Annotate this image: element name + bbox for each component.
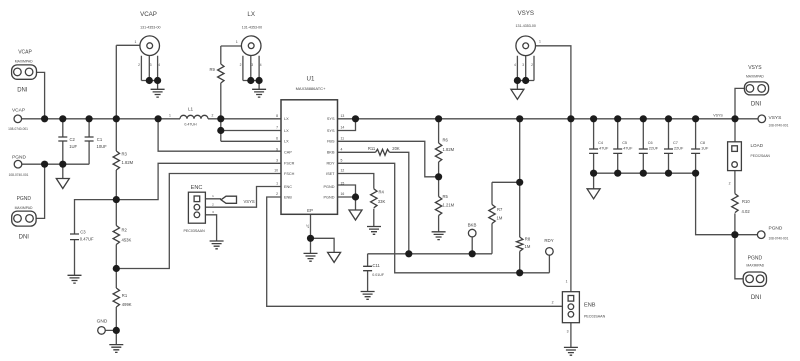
svg-text:17: 17 [306, 224, 310, 228]
svg-text:MAXIMPAD: MAXIMPAD [15, 206, 33, 210]
svg-text:R6: R6 [443, 138, 449, 143]
svg-text:1UF: 1UF [701, 147, 709, 151]
svg-text:EP: EP [307, 208, 313, 213]
svg-text:DNI: DNI [17, 88, 28, 94]
svg-text:R5: R5 [443, 194, 449, 199]
svg-text:20K: 20K [392, 146, 400, 151]
svg-text:PEC02SAAN: PEC02SAAN [751, 154, 771, 158]
svg-text:MAXIMPAD: MAXIMPAD [15, 59, 33, 63]
svg-text:MAXIMPAD: MAXIMPAD [746, 264, 764, 268]
svg-text:LX: LX [284, 117, 289, 121]
svg-text:13: 13 [341, 114, 345, 118]
svg-text:16: 16 [341, 192, 345, 196]
svg-text:DNI: DNI [751, 295, 762, 301]
svg-text:PGND: PGND [17, 196, 32, 202]
svg-text:BKB: BKB [468, 222, 477, 227]
svg-text:1: 1 [135, 40, 137, 44]
svg-text:108-0740-001: 108-0740-001 [8, 127, 28, 131]
svg-text:15: 15 [341, 182, 345, 186]
svg-text:C5: C5 [622, 141, 627, 145]
svg-text:4: 4 [158, 63, 160, 67]
svg-text:2: 2 [729, 182, 731, 186]
svg-text:FBS: FBS [327, 140, 335, 144]
svg-text:ENB: ENB [584, 303, 596, 309]
svg-text:VSYS: VSYS [769, 115, 782, 121]
svg-text:8: 8 [276, 114, 278, 118]
svg-text:ISET: ISET [326, 172, 335, 176]
svg-text:RDY: RDY [544, 238, 553, 243]
svg-text:1.82M: 1.82M [443, 147, 455, 152]
svg-text:PGND: PGND [12, 155, 26, 161]
svg-text:1M: 1M [525, 244, 531, 249]
svg-text:2: 2 [138, 63, 140, 67]
svg-text:ENC: ENC [284, 185, 292, 189]
svg-text:108-0740-001: 108-0740-001 [769, 236, 789, 240]
svg-text:499K: 499K [122, 302, 132, 307]
svg-text:14: 14 [341, 126, 345, 130]
svg-text:2: 2 [531, 63, 533, 67]
svg-text:C2: C2 [70, 137, 76, 142]
svg-text:SYS: SYS [327, 129, 335, 133]
svg-text:10UF: 10UF [97, 144, 108, 149]
svg-text:7: 7 [276, 126, 278, 130]
svg-text:1: 1 [169, 114, 171, 118]
svg-text:4.02: 4.02 [742, 209, 751, 214]
svg-text:2: 2 [212, 114, 214, 118]
svg-text:L1: L1 [188, 107, 194, 112]
svg-text:SYS: SYS [327, 117, 335, 121]
svg-text:3: 3 [276, 159, 278, 163]
svg-text:2: 2 [240, 63, 242, 67]
svg-text:MAXIMPAD: MAXIMPAD [746, 74, 764, 78]
svg-text:LX: LX [284, 140, 289, 144]
svg-text:R7: R7 [497, 207, 503, 212]
svg-text:PGND: PGND [769, 226, 783, 232]
svg-text:1: 1 [276, 182, 278, 186]
svg-text:R9: R9 [210, 67, 216, 72]
svg-text:VSYS: VSYS [748, 65, 762, 71]
svg-text:PGND: PGND [324, 195, 335, 199]
svg-text:R10: R10 [742, 199, 750, 204]
svg-text:CAP: CAP [284, 151, 292, 155]
svg-text:VSYS: VSYS [517, 10, 534, 17]
svg-text:R8: R8 [525, 237, 531, 242]
svg-text:22UF: 22UF [674, 147, 684, 151]
svg-text:47UF: 47UF [599, 147, 609, 151]
svg-text:LX: LX [247, 11, 255, 18]
svg-text:VSYS: VSYS [244, 199, 255, 204]
svg-text:C7: C7 [673, 141, 678, 145]
svg-text:3: 3 [251, 63, 253, 67]
svg-text:C6: C6 [648, 141, 653, 145]
svg-text:ENC: ENC [191, 185, 203, 191]
svg-text:1: 1 [236, 40, 238, 44]
svg-text:47UF: 47UF [623, 147, 633, 151]
svg-text:PEC03SAAN: PEC03SAAN [184, 229, 206, 233]
svg-text:R11: R11 [368, 146, 376, 151]
svg-text:1M: 1M [497, 216, 503, 221]
svg-text:131-4353-00: 131-4353-00 [516, 24, 536, 28]
svg-text:10: 10 [274, 169, 278, 173]
svg-text:LX: LX [284, 129, 289, 133]
svg-text:1: 1 [539, 40, 541, 44]
svg-text:C3: C3 [80, 229, 86, 234]
svg-text:22UF: 22UF [649, 147, 659, 151]
svg-text:9: 9 [276, 148, 278, 152]
svg-text:PGND: PGND [324, 185, 335, 189]
svg-text:11: 11 [341, 137, 345, 141]
svg-text:GND: GND [97, 319, 108, 325]
svg-text:33K: 33K [378, 199, 386, 204]
svg-text:VSYS: VSYS [713, 114, 723, 118]
svg-text:FSCH: FSCH [284, 172, 295, 176]
svg-text:MAX38886ATC+: MAX38886ATC+ [296, 86, 326, 91]
svg-text:R1: R1 [122, 293, 128, 298]
svg-text:3: 3 [567, 330, 569, 334]
svg-text:C8: C8 [700, 141, 705, 145]
svg-text:453K: 453K [122, 238, 132, 243]
svg-text:0.01UF: 0.01UF [372, 273, 385, 277]
svg-text:0.47UH: 0.47UH [184, 123, 197, 127]
svg-text:VCAP: VCAP [18, 50, 32, 56]
svg-text:2: 2 [552, 301, 554, 305]
svg-text:4: 4 [514, 63, 516, 67]
svg-text:108-0740-001: 108-0740-001 [9, 173, 29, 177]
svg-text:1: 1 [566, 280, 568, 284]
svg-text:LOAD: LOAD [751, 143, 764, 148]
svg-text:PEC03SAAN: PEC03SAAN [584, 315, 606, 319]
svg-text:DNI: DNI [751, 102, 762, 108]
svg-text:R4: R4 [379, 189, 385, 194]
svg-text:VCAP: VCAP [12, 108, 25, 114]
svg-text:2: 2 [276, 192, 278, 196]
svg-text:FSCR: FSCR [284, 162, 295, 166]
svg-text:6: 6 [276, 137, 278, 141]
svg-text:ENB: ENB [284, 195, 292, 199]
svg-text:12: 12 [341, 169, 345, 173]
svg-text:5: 5 [341, 159, 343, 163]
svg-text:131-4353-00: 131-4353-00 [140, 26, 160, 30]
svg-text:4: 4 [341, 148, 343, 152]
svg-text:R2: R2 [122, 228, 128, 233]
svg-text:U1: U1 [307, 76, 315, 83]
svg-text:1UF: 1UF [69, 144, 77, 149]
svg-text:C4: C4 [598, 141, 603, 145]
svg-text:3: 3 [150, 63, 152, 67]
svg-text:131-4353-00: 131-4353-00 [242, 26, 262, 30]
svg-text:R3: R3 [122, 152, 128, 157]
svg-text:DNI: DNI [19, 235, 30, 241]
svg-text:1.21M: 1.21M [443, 203, 455, 208]
svg-text:3: 3 [522, 63, 524, 67]
svg-text:RDY: RDY [326, 162, 334, 166]
svg-text:0.47UF: 0.47UF [80, 236, 94, 241]
svg-text:C1: C1 [97, 137, 103, 142]
svg-text:C11: C11 [373, 263, 381, 268]
svg-text:VCAP: VCAP [140, 11, 157, 18]
svg-text:1.82M: 1.82M [122, 160, 134, 165]
svg-text:4: 4 [260, 63, 262, 67]
svg-text:108-0740-001: 108-0740-001 [769, 124, 789, 128]
svg-text:BKB: BKB [327, 151, 335, 155]
svg-text:PGND: PGND [748, 256, 763, 262]
